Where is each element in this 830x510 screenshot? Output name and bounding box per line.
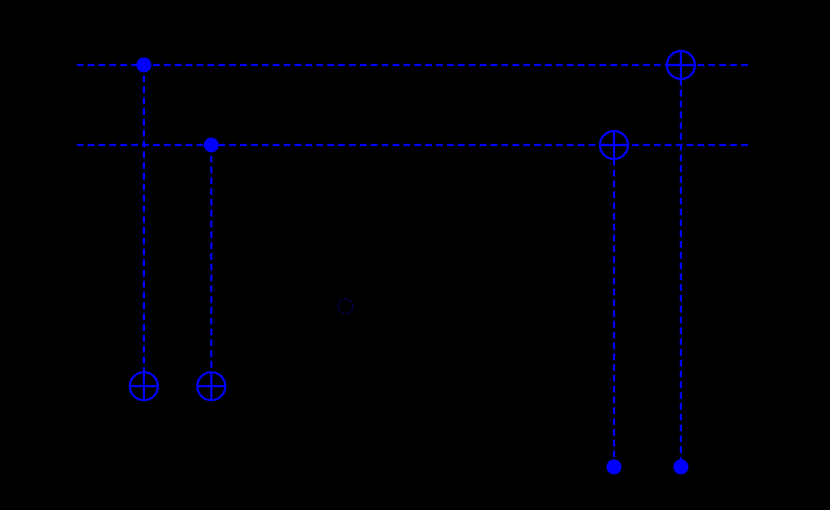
wire q0 (top horizontal dashed line): [77, 64, 748, 66]
control dot D3: [607, 459, 622, 474]
CNOT target X2 (mid right): [600, 131, 628, 159]
wire v4 (vertical dashed line, CNOT 4): [680, 79, 682, 467]
CNOT target X1 (top right): [667, 51, 695, 79]
CNOT target X4 (bottom left 2): [197, 372, 225, 400]
CNOT target X3 (bottom left): [130, 372, 158, 400]
wire q1 (second horizontal dashed line): [77, 144, 748, 146]
control dot D2: [204, 138, 219, 153]
wire v3 (vertical dashed line, CNOT 3): [613, 159, 615, 467]
wire v2 (vertical dashed line, CNOT 2): [210, 145, 212, 372]
wire v1 (vertical dashed line, CNOT 1): [143, 65, 145, 372]
control dot D1: [136, 58, 151, 73]
control dot D4: [673, 459, 688, 474]
node ghost (faint dotted circle): [338, 299, 353, 314]
